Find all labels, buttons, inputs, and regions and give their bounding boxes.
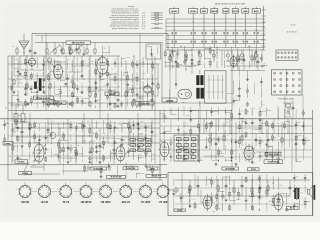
svg-text:A-Pr 4096-52: A-Pr 4096-52 — [287, 30, 297, 33]
svg-text:250: 250 — [62, 76, 65, 78]
svg-text:10k: 10k — [32, 97, 35, 99]
svg-text:2: 2 — [158, 198, 159, 200]
svg-text:30: 30 — [182, 197, 184, 199]
svg-text:465: 465 — [273, 162, 276, 164]
svg-text:0,5: 0,5 — [207, 203, 209, 205]
svg-text:6,3: 6,3 — [192, 29, 194, 31]
svg-text:xxx: xxx — [139, 150, 142, 152]
svg-text:od spodu: od spodu — [285, 117, 292, 119]
svg-text:5k: 5k — [6, 122, 8, 124]
svg-text:AF: AF — [180, 45, 182, 48]
svg-text:UB 3PV2: UB 3PV2 — [81, 200, 92, 204]
svg-text:4n: 4n — [32, 73, 34, 75]
svg-text:0,5: 0,5 — [226, 122, 228, 124]
svg-text:465: 465 — [211, 50, 214, 52]
svg-text:0,1: 0,1 — [154, 68, 156, 70]
svg-text:4: 4 — [105, 183, 106, 185]
svg-text:6,3: 6,3 — [225, 29, 227, 31]
svg-text:0,1: 0,1 — [110, 167, 112, 169]
svg-text:0,5: 0,5 — [140, 134, 142, 136]
svg-text:2: 2 — [140, 198, 141, 200]
svg-text:5: 5 — [113, 188, 114, 190]
svg-text:7U H/52: 7U H/52 — [141, 200, 151, 204]
svg-text:30: 30 — [200, 159, 202, 161]
svg-text:2: 2 — [121, 198, 122, 200]
svg-text:6,3: 6,3 — [213, 29, 215, 31]
svg-text:4n: 4n — [83, 79, 85, 81]
svg-text:4: 4 — [65, 183, 66, 185]
svg-text:4n: 4n — [50, 74, 52, 76]
svg-text:250: 250 — [90, 88, 93, 90]
svg-text:UH 4F: UH 4F — [41, 200, 49, 204]
svg-text:6,3: 6,3 — [234, 29, 236, 31]
svg-text:0,1: 0,1 — [44, 65, 46, 67]
svg-text:1k: 1k — [245, 129, 247, 131]
svg-text:10k: 10k — [78, 96, 81, 98]
svg-text:5k: 5k — [165, 118, 167, 120]
svg-text:0,5: 0,5 — [83, 61, 85, 63]
svg-text:8: 8 — [138, 174, 139, 176]
svg-text:TF 72: TF 72 — [62, 200, 69, 204]
svg-text:250: 250 — [241, 63, 244, 65]
svg-text:5k: 5k — [56, 100, 58, 102]
svg-text:0,1: 0,1 — [97, 91, 99, 93]
svg-text:p 79: p 79 — [142, 28, 145, 30]
svg-text:30: 30 — [84, 125, 86, 127]
svg-text:465: 465 — [261, 141, 264, 143]
svg-text:250: 250 — [83, 103, 86, 105]
svg-text:0,1: 0,1 — [51, 121, 53, 123]
svg-text:xxx: xxx — [132, 140, 135, 142]
svg-text:8uF: 8uF — [277, 123, 280, 125]
svg-text:UBC41 P0E: UBC41 P0E — [151, 175, 162, 178]
svg-text:MW 502 POD: MW 502 POD — [72, 43, 85, 45]
svg-text:cz: cz — [3, 125, 5, 127]
svg-text:0,1: 0,1 — [253, 123, 255, 125]
svg-text:3: 3 — [117, 189, 118, 191]
svg-text:100: 100 — [295, 176, 298, 178]
svg-text:UB 2B: UB 2B — [21, 200, 29, 204]
svg-text:25: 25 — [247, 124, 249, 126]
svg-text:glosnik dynamiczny z transf. w: glosnik dynamiczny z transf. wyjsc. — [112, 27, 140, 30]
svg-text:4: 4 — [125, 183, 126, 185]
svg-text:3HJ 24: 3HJ 24 — [122, 200, 131, 204]
svg-text:5k: 5k — [301, 204, 303, 206]
svg-text:2,1: 2,1 — [192, 21, 194, 23]
svg-text:0,5: 0,5 — [111, 145, 113, 147]
svg-text:1: 1 — [110, 198, 111, 200]
svg-text:30: 30 — [296, 189, 298, 191]
svg-text:UY 328: UY 328 — [159, 200, 168, 204]
svg-text:75: 75 — [297, 135, 299, 137]
svg-text:25: 25 — [19, 140, 21, 142]
svg-text:ip b: ip b — [213, 211, 216, 213]
svg-text:PODSTAWKI LAMP: PODSTAWKI LAMP — [278, 97, 295, 100]
svg-text:2k: 2k — [138, 103, 140, 105]
svg-text:250: 250 — [103, 133, 106, 135]
svg-text:UCH21: UCH21 — [18, 162, 25, 164]
svg-text:5k: 5k — [253, 148, 255, 150]
svg-text:UY1N: UY1N — [233, 11, 239, 13]
svg-text:2,1: 2,1 — [203, 21, 205, 23]
svg-text:465: 465 — [261, 155, 264, 157]
svg-text:465: 465 — [153, 154, 156, 156]
svg-text:3: 3 — [57, 189, 58, 191]
svg-text:6,3: 6,3 — [172, 67, 174, 69]
svg-text:4n: 4n — [247, 111, 249, 113]
svg-text:10k: 10k — [59, 89, 62, 91]
svg-text:0,1: 0,1 — [147, 140, 149, 142]
svg-text:6,3: 6,3 — [255, 29, 257, 31]
svg-text:100: 100 — [218, 209, 221, 211]
svg-text:3: 3 — [97, 189, 98, 191]
svg-text:75: 75 — [185, 150, 187, 152]
svg-text:SPRZ: SPRZ — [5, 143, 11, 145]
svg-text:0,5: 0,5 — [147, 151, 149, 153]
svg-text:4n: 4n — [288, 195, 290, 197]
svg-text:6,3: 6,3 — [173, 29, 175, 31]
svg-text:5k: 5k — [134, 102, 136, 104]
svg-text:2,1: 2,1 — [173, 21, 175, 23]
svg-text:4n: 4n — [130, 126, 132, 128]
svg-text:0,5: 0,5 — [233, 150, 235, 152]
svg-text:5k: 5k — [69, 90, 71, 92]
svg-text:5k: 5k — [29, 89, 31, 91]
svg-text:0,1: 0,1 — [140, 155, 142, 157]
svg-text:25: 25 — [240, 195, 242, 197]
svg-text:2,1: 2,1 — [213, 21, 215, 23]
svg-text:W 502 P0B: W 502 P0B — [126, 168, 136, 170]
svg-text:30: 30 — [254, 196, 256, 198]
svg-text:8: 8 — [36, 123, 37, 125]
svg-text:UY1N: UY1N — [251, 169, 257, 171]
svg-text:2,1: 2,1 — [255, 21, 257, 23]
svg-text:250: 250 — [116, 128, 119, 130]
svg-text:22.4: 22.4 — [192, 199, 195, 201]
svg-text:75: 75 — [253, 163, 255, 165]
svg-text:NAPIECIA NA ELEKTRODACH LAMP: NAPIECIA NA ELEKTRODACH LAMP — [215, 3, 246, 6]
svg-text:10k: 10k — [14, 132, 17, 134]
svg-text:2: 2 — [81, 198, 82, 200]
svg-text:xxx: xxx — [132, 150, 135, 152]
svg-text:0,5: 0,5 — [47, 149, 49, 151]
svg-text:2,1: 2,1 — [225, 21, 227, 23]
svg-text:2k: 2k — [263, 63, 265, 65]
svg-text:gn: gn — [5, 107, 7, 109]
svg-text:50: 50 — [105, 141, 107, 143]
svg-text:Uwaga:: Uwaga: — [128, 6, 135, 8]
svg-text:W-WE 1.4 KGB: W-WE 1.4 KGB — [36, 97, 51, 100]
svg-text:0,1: 0,1 — [185, 132, 187, 134]
svg-text:0,5: 0,5 — [185, 123, 187, 125]
svg-text:75: 75 — [260, 175, 262, 177]
svg-text:0,1: 0,1 — [301, 192, 303, 194]
svg-text:1: 1 — [131, 198, 132, 200]
svg-text:UL41 550: UL41 550 — [269, 153, 279, 156]
svg-text:6,3: 6,3 — [244, 29, 246, 31]
svg-text:50: 50 — [104, 48, 106, 50]
svg-text:100: 100 — [91, 61, 94, 63]
svg-text:10k: 10k — [235, 100, 238, 102]
svg-text:1: 1 — [91, 198, 92, 200]
svg-text:2,1: 2,1 — [244, 21, 246, 23]
svg-text:50: 50 — [224, 197, 226, 199]
svg-text:W 502 P0B: W 502 P0B — [225, 168, 235, 170]
svg-text:250: 250 — [111, 152, 114, 154]
svg-text:50uF: 50uF — [236, 199, 240, 201]
svg-text:2: 2 — [20, 198, 21, 200]
svg-text:UCH21: UCH21 — [171, 11, 178, 13]
svg-text:465: 465 — [219, 152, 222, 154]
svg-text:50k: 50k — [105, 85, 108, 87]
svg-text:2k: 2k — [111, 69, 113, 71]
svg-text:5k: 5k — [19, 80, 21, 82]
svg-text:10k: 10k — [146, 127, 149, 129]
svg-text:WY 4/5: WY 4/5 — [177, 209, 182, 212]
svg-text:0,5: 0,5 — [213, 182, 215, 184]
svg-text:8: 8 — [298, 125, 299, 127]
svg-text:1: 1 — [150, 198, 151, 200]
svg-text:10k: 10k — [279, 185, 282, 187]
svg-text:2k: 2k — [253, 108, 255, 110]
svg-text:UBC41: UBC41 — [211, 10, 218, 13]
svg-text:6,3: 6,3 — [203, 29, 205, 31]
svg-text:AZ 41: AZ 41 — [290, 207, 295, 210]
svg-text:1: 1 — [30, 198, 31, 200]
svg-text:50: 50 — [27, 85, 29, 87]
svg-text:4k: 4k — [261, 197, 263, 199]
svg-text:xxx: xxx — [147, 145, 150, 147]
svg-text:1: 1 — [49, 198, 50, 200]
svg-text:2: 2 — [39, 198, 40, 200]
svg-text:50: 50 — [15, 59, 17, 61]
svg-text:4n: 4n — [241, 111, 243, 113]
svg-text:osc/f: osc/f — [32, 165, 36, 167]
svg-text:25: 25 — [175, 192, 177, 194]
svg-text:50: 50 — [123, 123, 125, 125]
svg-text:2,1: 2,1 — [234, 21, 236, 23]
svg-text:10n: 10n — [141, 121, 144, 123]
svg-text:M 502 P0 25E: M 502 P0 25E — [111, 177, 123, 179]
svg-text:465: 465 — [127, 57, 130, 59]
svg-text:UCH21: UCH21 — [190, 11, 197, 13]
svg-text:0,1: 0,1 — [233, 142, 235, 144]
svg-text:2: 2 — [61, 198, 62, 200]
svg-text:5k: 5k — [220, 137, 222, 139]
svg-text:UB JR/2: UB JR/2 — [101, 200, 112, 204]
svg-text:1: 1 — [71, 198, 72, 200]
svg-text:250: 250 — [304, 138, 307, 140]
svg-text:xxx: xxx — [132, 145, 135, 147]
svg-text:4n: 4n — [19, 61, 21, 63]
svg-text:0,1: 0,1 — [227, 135, 229, 137]
svg-text:75: 75 — [154, 169, 156, 171]
